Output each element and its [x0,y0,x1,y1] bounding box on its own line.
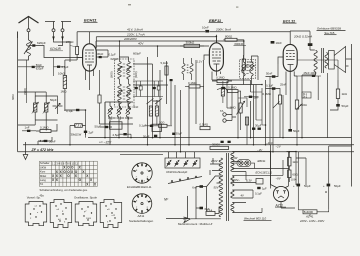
wire det verticals [227,77,283,152]
wire mid cluster [133,81,163,97]
capacitor 450 blob top [308,43,313,46]
tube EBF11 electrodes [212,49,221,68]
svg-text:0,1MΩ: 0,1MΩ [40,126,49,130]
mid cluster caps row A [135,86,161,90]
capacitor blobs det bottom [252,128,255,130]
svg-text:620pF: 620pF [111,57,119,61]
wire grid network ECL11 [266,64,281,95]
wire vertical x166.5 [166,61,168,104]
svg-text:50µF: 50µF [304,184,311,188]
coil BF1 secondary upper [127,62,130,80]
coil can 2 [50,200,71,228]
capacitor 50µF mid [154,135,157,137]
capacitor 0.1µF row [139,123,158,127]
grid caps left of ECL11 [272,75,276,78]
svg-text:AZ 41: AZ 41 [305,214,314,218]
svg-text:5,1kΩ: 5,1kΩ [161,61,168,65]
capacitor 50µF no1 [293,152,311,210]
capacitor 10nF ECL grid [271,41,275,44]
svg-text:50µF: 50µF [342,104,349,108]
resistor pair hatched A mid [149,106,152,116]
svg-text:Schalterverbindung, von Feders: Schalterverbindung, von Federseite ges. [40,188,89,192]
svg-text:Sockelschaltungen: Sockelschaltungen [129,219,154,223]
wire rail 41V [77,31,290,33]
can terminal dots [30,203,117,221]
svg-text:0,1MΩ: 0,1MΩ [188,81,197,85]
svg-text:50µF: 50µF [293,129,300,133]
svg-text:AZ11: AZ11 [138,214,145,218]
svg-text:ECH11EBF11ECL11: ECH11EBF11ECL11 [127,185,152,189]
svg-text:TA: TA [220,109,224,113]
dial lamp assembly [237,160,251,167]
wire grid leak down [280,76,297,138]
svg-text:50nF: 50nF [266,71,273,75]
wire grid coupling [40,39,83,58]
wire transformer primary bottom [302,72,316,138]
svg-text:300kΩ: 300kΩ [186,40,196,44]
transformer heater winding 2 [231,190,234,198]
wire vertical x253.5 [253,85,255,145]
svg-text:0,1µF: 0,1µF [139,123,147,127]
svg-text:1µF: 1µF [262,187,267,191]
table row labels [40,161,50,186]
svg-text:+: + [323,184,325,188]
svg-text:(600): (600) [23,88,27,95]
svg-text:Kurz: Kurz [40,170,46,174]
svg-text:220V: 220V [210,159,219,163]
wire speaker frame [346,59,352,66]
svg-text:+= −32V: += −32V [99,141,112,145]
coil can 4 [100,200,122,228]
svg-text:200V, 5mA: 200V, 5mA [215,27,231,31]
svg-text:EBF11: EBF11 [209,18,222,23]
capacitor 6nF mains lower [196,207,210,211]
capacitor 50µF right [330,104,349,110]
wire IF coil mid leads [184,58,192,80]
wire ECH11 top cap [89,32,91,40]
wire rail 40V [96,45,209,47]
IF coil pair mid [182,64,193,74]
svg-text:60Ω: 60Ω [292,172,298,176]
transformer primary winding [219,158,222,217]
tube ECH11 envelope [83,44,97,71]
core dashes BF1 lower [123,87,125,99]
svg-text:20kΩ 0,32mA: 20kΩ 0,32mA [293,35,312,39]
svg-text:ZF = 472 kHz: ZF = 472 kHz [31,148,54,152]
tube EBF11 envelope [209,43,223,71]
transformer heater winding 3 [231,203,234,213]
box bandfilter I [115,59,135,107]
wire vertical x152 [152,64,154,138]
wire BF1 connections [96,41,128,108]
wire vertical x147.5 [147,57,149,145]
svg-text:Meßinstrument : Multizet Z: Meßinstrument : Multizet Z [178,222,212,226]
resistor 60Ω heater [288,170,299,182]
speck top1 [128,4,131,5]
trimmer arrow through L-antenna [24,42,32,54]
svg-text:0,3W: 0,3W [231,156,238,160]
svg-text:30pF: 30pF [97,52,104,56]
wire lamps [232,163,254,168]
svg-text:0,1MΩ: 0,1MΩ [216,76,225,80]
tube ECL11 envelope [283,44,297,71]
capacitor cluster top-left [32,66,35,68]
coil osc 2 [117,106,120,117]
speck top2 [236,7,238,8]
wire BF2 connections [244,42,259,85]
svg-text:0,3MΩ: 0,3MΩ [263,92,271,96]
resistor 1kΩ heater [288,152,299,170]
svg-text:228V~ 110V~ 290V: 228V~ 110V~ 290V [299,219,325,223]
transformer HT secondary [231,152,234,172]
resistor hatched B [43,96,50,120]
svg-text:1MΩ: 1MΩ [230,106,237,110]
wire input caps [18,58,65,104]
svg-text:5nF: 5nF [254,95,259,99]
svg-text:ECL11: ECL11 [283,18,296,23]
svg-text:1003: 1003 [86,218,92,220]
resistor 800Ω [223,34,243,41]
wire vertical x160 [159,70,161,138]
speaker [329,47,346,73]
resistor 0.1MΩ mid [185,81,204,88]
svg-text:1kΩ: 1kΩ [342,92,348,96]
transformer output core [322,48,324,73]
svg-text:ECH11: ECH11 [84,18,97,23]
coil BF1 primary lower [118,84,121,104]
table X O marks [52,166,97,187]
svg-text:UKW-Drehko4µF: UKW-Drehko4µF [166,170,188,174]
resistor pair hatched B mid [155,100,158,125]
transformer output secondary [325,53,328,69]
wire vertical x189 [188,87,190,145]
svg-text:25nF 4000: 25nF 4000 [304,71,317,75]
wire heater taps right [232,160,289,213]
wire primary taps [210,164,221,207]
resistor 270Ω [66,32,79,60]
resistor 10Ω [159,120,173,127]
wire vertical x171 [170,81,172,125]
resistor 0.5MΩ [200,123,211,130]
wire det area [212,80,262,130]
svg-text:Vorsel.-Sp.: Vorsel.-Sp. [27,196,41,200]
wire rail 220V [96,37,216,43]
socket1 pin numbers [136,170,149,183]
wire horizontals mid [133,64,168,101]
resistor 50kΩ mixer [70,110,86,145]
resistor 1kΩ right [336,80,347,104]
switch diagonals mid [147,99,163,105]
svg-text:ECH11ECL11: ECH11ECL11 [256,170,273,174]
svg-text:41V, 3,8mA: 41V, 3,8mA [127,27,143,31]
arrow NF [166,196,190,219]
wire ECH11 pins down [77,58,94,91]
capacitor mid x171 [170,79,173,81]
resistor 0.1MΩ det [228,86,239,93]
tuning capacitor gang box [165,158,200,168]
capacitor 50µF agc [95,124,113,128]
svg-text:4nF: 4nF [134,105,139,109]
svg-text:200/208V: 200/208V [123,37,138,41]
terminal E2 [61,29,64,32]
info box ECL [302,92,311,98]
svg-text:10nF: 10nF [276,41,283,45]
switch diagonal ECL grid [273,102,280,109]
wire HT sec bottom [232,162,246,181]
svg-text:1kΩ: 1kΩ [292,160,298,164]
switch mains [207,176,216,212]
tube AZ11 [271,145,296,208]
wire vertical x203.5 [203,60,205,126]
svg-text:800Ω: 800Ω [225,34,233,38]
resistor ECL11 grid leak [278,95,281,104]
arrow mains plug [184,219,191,223]
trimmer capacitor row osc [105,102,133,124]
capacitor 620pF [29,41,46,47]
svg-text:0,1µF: 0,1µF [109,53,116,57]
terminal antenna [27,29,30,32]
wire ECL11 pins [278,57,294,90]
tuning cap section 3 [184,152,189,167]
transformer heater winding 1 [231,176,234,186]
svg-text:TA: TA [40,182,43,186]
socket ECH11-EBF11-ECL11 [132,163,152,183]
wire terminal E2 lead [61,22,71,29]
svg-text:UKW: UKW [40,165,47,169]
wire rail chassis y144.7 [23,144,354,146]
coil can 3 [75,202,97,226]
capacitor 50µF kathode blob [288,129,292,132]
wire rectifier output [287,152,307,186]
core dashes BF1 upper [123,64,125,76]
svg-text:0,9A: 0,9A [291,177,297,181]
svg-text:50pF: 50pF [50,98,57,102]
wire anode to transformer [310,31,315,50]
svg-text:300kΩ: 300kΩ [234,42,244,46]
tube ECL11 electrodes [286,51,295,69]
wire mixer mid vertical [100,70,106,138]
svg-text:2µF: 2µF [89,130,94,134]
transformer output primary [314,50,317,72]
svg-text:9a+7k5: 9a+7k5 [325,31,335,35]
resistor 0.1MΩ under EBF [212,76,232,83]
wire vertical x265.5 [265,80,267,145]
svg-text:50µF: 50µF [334,184,341,188]
tuning cap section 2 [175,152,180,167]
wire x318 down [318,73,327,138]
resistor hatched A [32,96,39,120]
trimmer arrows BF2 [241,65,246,70]
wire left column joins [18,92,58,131]
fuse 0.1a [206,207,221,215]
capacitor 1nF [22,126,36,132]
svg-text:30000: 30000 [212,142,220,146]
capacitor 0.1µF input [57,66,60,68]
resistor 1MΩ vert below EBF [221,81,224,103]
svg-text:1MΩ: 1MΩ [61,90,67,94]
socket AZ11 [132,194,152,214]
band switch arm [168,176,202,183]
svg-text:Mittel: Mittel [40,174,47,178]
wire vertical x250.5 [250,80,252,138]
wire det horizontals [238,92,266,125]
wire vertical x175 [174,85,176,145]
wire feeds from ECH11 to rails [96,37,158,57]
coil BF1 secondary lower [127,84,130,104]
wire ECL11 top anode [290,31,310,44]
wire left rail x17.6 [17,32,19,152]
svg-text:50µF: 50µF [143,134,150,138]
capacitor 30pF tube right [96,52,108,58]
wire osc bottom to rail [110,124,128,145]
trimmer arrows BF1 [117,66,122,71]
capacitor 2µF mixer [84,130,94,137]
svg-text:10nF: 10nF [202,26,209,30]
svg-text:(600): (600) [134,71,138,78]
svg-text:220V~: 220V~ [231,178,240,182]
svg-text:0,1µF: 0,1µF [66,109,73,113]
resistor 10kΩ mixer left [58,60,77,109]
wire coil bottom [18,56,29,60]
trimmer C left [53,99,63,114]
svg-text:6nF: 6nF [192,185,197,189]
ECL cathode cluster [297,71,321,77]
wire EBF11 pins [204,35,221,80]
coil osc 3 [126,106,129,117]
terminal E1 [52,29,55,32]
svg-text:30µF: 30µF [176,131,183,135]
svg-text:AZ11: AZ11 [275,203,284,207]
capacitor 6nF mains upper [192,185,206,219]
wire antenna feed down [18,32,29,41]
wire y154 short [120,153,163,155]
wire mains leads [191,158,221,219]
resistor 0.1MΩ box [36,124,57,133]
wire terminal E1 lead [45,22,55,29]
svg-text:0,1a: 0,1a [207,208,213,212]
box bandfilter II [240,60,256,79]
capacitor 50nF [38,137,56,145]
capacitor 10nF det [222,87,225,89]
svg-text:Dr.2: Dr.2 [303,95,308,98]
coil can 1 [25,202,47,226]
svg-text:2,5µF: 2,5µF [113,133,121,137]
selector box 5x4000 [298,210,328,217]
core dashes BF2 [246,65,248,74]
socket2 pin numbers [136,201,149,209]
coil BF1 primary upper [118,62,121,80]
svg-text:30kΩ1W: 30kΩ1W [71,133,82,137]
wire vertical x196 [195,60,197,124]
coil BF2 primary [242,62,245,76]
tuning cap section 4 [193,152,198,167]
box block capacitor [110,122,123,129]
svg-text:Oszillatorw. Spule: Oszillatorw. Spule [74,196,97,200]
wire rail -32V y137.6 [88,137,352,139]
coil L-antenna [27,40,31,56]
svg-text:0,5MΩ: 0,5MΩ [200,123,209,127]
capacitor 10nF on rail [205,30,209,33]
svg-text:+: + [293,184,295,188]
capacitor 5nF [244,95,259,99]
capacitor 50µF no2 [323,146,352,210]
svg-text:10Ω: 10Ω [159,120,165,124]
wire right rail x351.5 [351,44,353,187]
wire vertical x180.5 [180,90,182,152]
coil BF2 secondary [250,62,253,76]
potentiometer 1MΩ [230,98,245,120]
svg-text:(600): (600) [110,71,114,78]
resistor 3000Ω rail [210,142,229,149]
tube ECH11 electrodes [85,40,94,69]
terminal TA 1 [223,113,226,116]
wire rail 200-208V [96,40,244,42]
svg-text:Lang: Lang [40,178,46,182]
box 10k cathode [295,100,306,145]
box paper cap mid [152,124,162,131]
wire to tube top [54,39,71,62]
wire rail chassis y151.7 [18,151,354,153]
svg-text:220V, 1,7mA: 220V, 1,7mA [126,32,145,36]
tuning cap section 1 [167,152,172,167]
heater cap cluster [255,179,267,196]
terminal TA 2 [223,119,226,122]
resistor 30kΩ vertical [242,42,254,77]
transformer core [226,153,228,221]
trimmer arrows osc [108,108,113,113]
wire ECL11 cathode right [297,60,338,80]
arrow ZF down [23,142,28,160]
arrow below E1 [53,32,55,40]
arrow below E2 [62,32,64,40]
can terminal tiny labels [30,206,116,224]
svg-text:620pF: 620pF [37,41,46,45]
svg-text:Schalter: Schalter [40,161,50,165]
svg-text:60Ω: 60Ω [11,94,15,100]
capacitor 2.5µF [113,133,132,138]
svg-text:25nF: 25nF [280,83,287,87]
coil osc 1 [108,106,111,117]
resistor mid x166.5 [165,66,168,75]
svg-text:6Ch1/B: 6Ch1/B [50,47,62,51]
resistor 300kΩ box [180,40,204,47]
svg-text:30µF: 30µF [255,124,262,128]
svg-text:50µF: 50µF [95,124,102,128]
capacitor 30µF bottom [172,131,182,135]
switch diagonal cathode [296,104,303,110]
wire HT sec top to AZ11 [232,152,270,189]
antenna A [19,17,39,29]
capacitor 0.1µF mixer [65,109,86,113]
svg-text:10kΩ: 10kΩ [58,71,66,75]
svg-text:EBF11: EBF11 [258,159,267,163]
resistor mixer mid [98,95,101,103]
resistor det vertical [245,117,248,125]
svg-text:0,1µF: 0,1µF [255,192,262,196]
capacitor blobs above transformer [221,141,224,143]
svg-text:0,1MΩ: 0,1MΩ [228,86,237,90]
table frame [40,161,98,186]
svg-text:1nF: 1nF [25,126,30,130]
svg-text:600pF: 600pF [133,52,141,56]
svg-text:Wechsel 803 110: Wechsel 803 110 [244,217,266,221]
